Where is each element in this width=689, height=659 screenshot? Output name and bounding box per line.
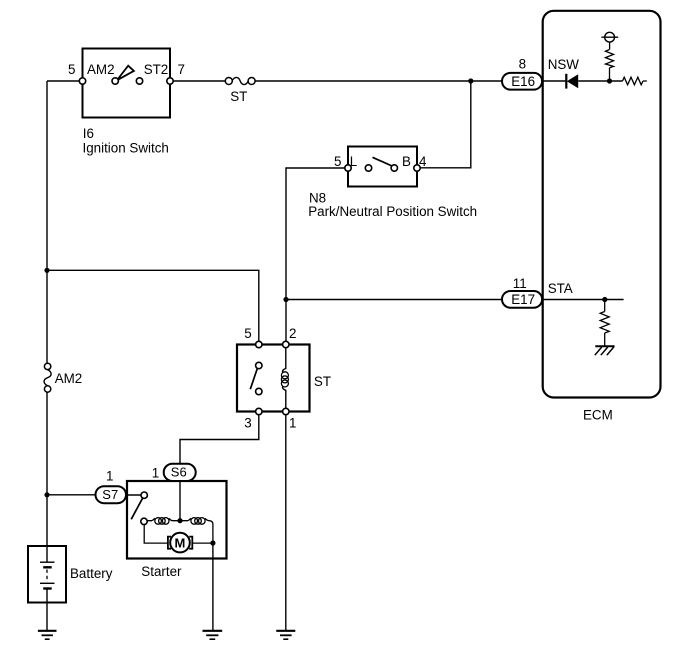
wire left rail upper (pin5 down to fuse AM2) [46,81,48,363]
wire resistor to junction [609,68,611,81]
starter hold-in coil loops [155,518,169,525]
svg-text:Battery: Battery [70,566,113,581]
svg-text:L: L [350,154,357,169]
diode NSW (cathode bar left, triangle pointing left) [565,74,567,89]
power symbol (circle with bar) [605,32,615,42]
svg-text:1: 1 [106,468,113,483]
resistor horizontal inside ECM [623,77,644,85]
node left rail to S7 [44,492,49,497]
relay coil top lead pin2 [283,345,286,373]
node starter coil junction [177,518,182,523]
ECM box [543,11,661,398]
svg-text:3: 3 [244,416,251,431]
svg-text:STA: STA [548,281,573,296]
wire resistor tail [643,80,647,82]
wire junction to N8 pin4 (vertical drop and horizontal) [417,81,471,168]
svg-text:S6: S6 [171,465,187,480]
terminal circles ignition switch [79,78,173,84]
svg-text:2: 2 [289,326,296,341]
relay coil bottom lead pin1 [283,386,286,411]
wire from ignition switch pin 5 to left rail [47,80,83,82]
relay switch blade [250,369,257,390]
fuse AM2 terminal circles [44,363,50,369]
connector E17 oval [502,291,542,308]
svg-text:AM2: AM2 [87,62,115,77]
svg-text:Starter: Starter [141,564,182,579]
svg-text:ST: ST [230,89,247,104]
wire fuse ST to connector E16 [255,80,503,82]
wire left rail lower (fuse AM2 to battery) [46,392,48,547]
svg-text:E17: E17 [511,292,535,307]
svg-text:I6: I6 [83,126,94,141]
svg-text:E16: E16 [511,74,535,89]
fuse ST wavy element [232,77,248,84]
svg-text:ST2: ST2 [144,62,169,77]
ignition switch lever [117,66,134,81]
wire E16 to diode [540,80,566,82]
starter pull-in coil loops [191,518,205,525]
relay coil loops [281,372,288,387]
wire battery internals [46,546,48,562]
svg-text:1: 1 [289,416,296,431]
starter switch blade [131,498,142,519]
svg-text:7: 7 [178,62,185,77]
svg-text:S7: S7 [102,487,118,502]
wire resistor to ECM ground [604,333,606,346]
node NSW pull-up junction [607,78,612,83]
wire STA row: junction to connector E17 [286,299,503,301]
terminal circles N8 [345,165,420,171]
svg-text:4: 4 [419,154,427,169]
svg-text:AM2: AM2 [55,371,83,386]
wire motor right to junction [192,542,213,544]
N8 switch blade [373,157,394,166]
wire ignition pin7 to fuse ST [170,80,225,82]
node left rail to relay [44,268,49,273]
svg-text:5: 5 [244,326,251,341]
fuse AM2 wavy element [44,370,51,386]
svg-text:1: 1 [152,466,159,481]
wire S6 into starter box to coil junction [179,481,181,521]
svg-text:Park/Neutral Position Switch: Park/Neutral Position Switch [308,204,477,219]
battery ground symbol [38,631,57,639]
motor left bracket [168,537,171,549]
motor right bracket [189,537,192,549]
wire coil left end down to motor [144,525,168,544]
wire relay pin1 down to ground [285,412,287,631]
svg-text:NSW: NSW [548,57,580,72]
node starter motor junction [210,540,215,545]
svg-text:8: 8 [519,57,526,72]
terminal circles relay [256,341,289,414]
resistor vertical STA [600,312,609,334]
fuse ST terminal circles [225,78,232,85]
connector S6 oval [164,464,196,481]
wire S7 to starter switch contact [125,494,142,496]
connector E16 oval [502,73,542,90]
ignition switch I6 box [83,49,171,118]
node STA junction inside ECM [602,297,607,302]
ECM chassis ground (hatched) [595,346,615,355]
starter ground symbol [203,631,223,639]
node E16/N8 junction [468,78,473,83]
starter box [127,481,227,559]
park/neutral switch N8 box [348,147,417,187]
terminal circles starter [141,492,148,525]
svg-text:11: 11 [513,276,527,291]
svg-text:Ignition Switch: Ignition Switch [83,140,169,155]
starter coil straight segments [147,518,213,543]
wire rail to connector S7 [47,494,95,496]
motor M circle [170,533,190,553]
svg-text:M: M [175,536,186,551]
battery cell plates [40,562,55,588]
battery box [28,546,66,603]
relay ground symbol [276,631,295,639]
starter relay ST box [237,345,310,412]
wire power to resistor [609,42,611,49]
wire STA junction down [604,300,606,312]
svg-text:5: 5 [334,154,341,169]
connector S7 oval [96,486,127,503]
resistor vertical pull-up [606,50,614,68]
wire relay pin5 up and left to rail [47,270,259,344]
svg-text:ST: ST [314,374,331,389]
svg-text:B: B [402,154,411,169]
wire N8 pin5 to vertical rail x286 [286,168,348,345]
wire diode to junction [578,80,622,82]
wire E17 into ECM [540,299,624,301]
node STA junction left [283,297,288,302]
wire relay pin3 down-left to connector S6 [180,412,259,465]
svg-text:5: 5 [68,62,75,77]
svg-text:ECM: ECM [583,408,613,423]
wire starter junction down to ground [212,543,214,631]
